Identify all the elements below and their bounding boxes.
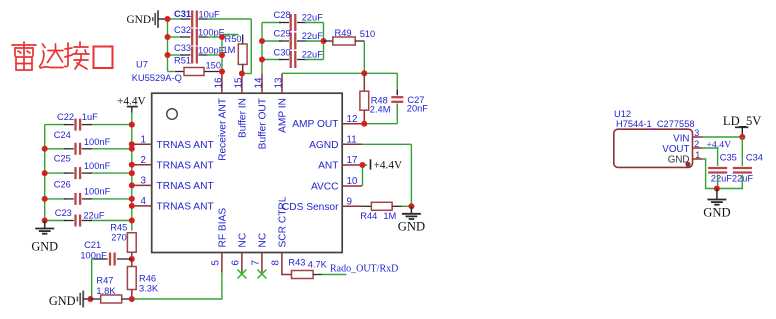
- junction ANT node: [360, 162, 366, 168]
- no-connect marker pin 7: [257, 270, 266, 279]
- junction R44 ground node: [408, 203, 414, 209]
- regulator U12 body: [614, 129, 693, 167]
- svg-text:C31: C31: [174, 9, 191, 19]
- capacitor C27: [391, 90, 428, 114]
- U7 pin 14 Buffer OUT: [254, 73, 269, 149]
- junction R45 bottom node: [129, 256, 135, 262]
- svg-text:C24: C24: [54, 130, 71, 140]
- U7 pin 17 ANT: [318, 155, 362, 171]
- svg-text:510: 510: [360, 29, 376, 39]
- svg-text:KU5529A-Q: KU5529A-Q: [132, 73, 182, 83]
- U7 pin 7 NC: [251, 233, 269, 273]
- capacitor C33: [174, 43, 225, 63]
- svg-text:C34: C34: [746, 153, 763, 163]
- svg-text:270: 270: [111, 233, 127, 243]
- wire net VOUT to C35: [703, 148, 718, 166]
- svg-text:9: 9: [347, 197, 352, 208]
- U7 pin 15 Buffer IN: [233, 73, 248, 138]
- svg-text:C28: C28: [274, 10, 291, 20]
- svg-text:Rado_OUT/RxD: Rado_OUT/RxD: [330, 263, 398, 274]
- svg-text:AVCC: AVCC: [311, 182, 339, 193]
- svg-text:VIN: VIN: [673, 133, 689, 144]
- junction U12 ground node: [714, 186, 720, 192]
- resistor R48: [360, 73, 391, 123]
- svg-text:C32: C32: [174, 25, 191, 35]
- svg-text:U7: U7: [136, 60, 148, 70]
- svg-text:4.7K: 4.7K: [308, 259, 328, 269]
- svg-text:R44: R44: [360, 211, 377, 221]
- wire net pin12 to C27 bottom: [364, 104, 397, 124]
- junction LD_5V node: [739, 134, 745, 140]
- svg-text:R50: R50: [225, 34, 242, 44]
- svg-text:C21: C21: [84, 240, 101, 250]
- wire net C24 row: [45, 148, 132, 150]
- U7 pin 5 RF BIAS: [211, 208, 229, 273]
- svg-text:CDS Sensor: CDS Sensor: [282, 202, 339, 213]
- svg-text:1uF: 1uF: [82, 112, 98, 122]
- svg-text:C35: C35: [720, 153, 737, 163]
- capacitor C32: [174, 25, 225, 45]
- power ground GND bottom-left: [49, 291, 88, 308]
- svg-text:GND: GND: [703, 206, 730, 220]
- svg-text:3: 3: [141, 176, 147, 187]
- svg-text:5: 5: [211, 260, 222, 266]
- wire net C28 right rail: [305, 23, 324, 60]
- svg-text:2.4M: 2.4M: [370, 104, 391, 114]
- svg-text:12: 12: [347, 114, 358, 125]
- svg-text:C29: C29: [274, 28, 291, 38]
- svg-text:1M: 1M: [223, 45, 236, 55]
- svg-text:8: 8: [271, 260, 282, 266]
- wire net pin14 rail: [262, 23, 281, 74]
- capacitor C35: [708, 153, 737, 184]
- junction pin14 rail: [259, 38, 265, 44]
- capacitor C25: [54, 154, 111, 180]
- title text 雷达接口 (Radar Interface): [12, 42, 113, 70]
- junction left rail: [42, 146, 48, 152]
- U12 pin 2 VOUT: [662, 139, 702, 155]
- U7 pin 13 AMP IN: [274, 73, 289, 133]
- svg-text:GND: GND: [127, 14, 151, 26]
- wire net C22 row: [45, 124, 132, 126]
- junction pin16 rail: [219, 34, 225, 40]
- U7 pin 16 Receiver ANT: [213, 73, 228, 161]
- svg-text:22uF: 22uF: [711, 174, 733, 184]
- svg-text:R43: R43: [288, 258, 305, 268]
- U7 pin 3 TRNAS ANT: [132, 176, 214, 192]
- svg-text:R46: R46: [139, 273, 156, 283]
- svg-text:R47: R47: [96, 275, 113, 285]
- svg-text:17: 17: [347, 155, 358, 166]
- svg-text:1: 1: [695, 150, 700, 160]
- svg-text:20nF: 20nF: [407, 103, 429, 113]
- junction +4.4V rail: [129, 122, 135, 128]
- resistor R46: [127, 259, 159, 299]
- svg-text:U12: U12: [614, 109, 631, 119]
- resistor R45: [110, 223, 136, 260]
- wire net left cap rail: [44, 125, 46, 221]
- wire net ANT to AVCC: [362, 165, 364, 186]
- svg-text:Buffer IN: Buffer IN: [238, 98, 249, 138]
- svg-text:10: 10: [347, 176, 358, 187]
- U7 pin 11 AGND: [309, 135, 362, 151]
- svg-text:Buffer OUT: Buffer OUT: [258, 98, 269, 149]
- svg-text:Receiver ANT: Receiver ANT: [218, 98, 229, 161]
- U7 pin 10 AVCC: [311, 176, 362, 192]
- wire net Rado_OUT/RxD: [322, 274, 347, 276]
- svg-text:H7544-1_C277558: H7544-1_C277558: [616, 119, 695, 129]
- svg-text:GND: GND: [398, 220, 425, 234]
- svg-text:2: 2: [694, 139, 699, 149]
- capacitor C31: [174, 9, 220, 28]
- resistor R44: [360, 202, 401, 221]
- wire net U12 ground: [703, 159, 743, 189]
- svg-text:22uF: 22uF: [302, 31, 324, 41]
- wire net RF BIAS: [132, 273, 222, 300]
- U12 corner marker dot: [685, 162, 690, 167]
- resistor R50: [223, 34, 248, 74]
- capacitor C29: [274, 28, 324, 49]
- svg-text:100nF: 100nF: [84, 186, 111, 196]
- svg-text:ANT: ANT: [318, 161, 338, 172]
- junction pin12 node: [361, 121, 367, 127]
- capacitor C23: [55, 208, 105, 227]
- U7 pin 9 CDS Sensor: [282, 197, 362, 213]
- svg-text:TRNAS ANT: TRNAS ANT: [157, 201, 214, 212]
- U7 pin 4 TRNAS ANT: [132, 196, 214, 212]
- svg-text:C30: C30: [274, 47, 291, 57]
- wire net C26 row: [45, 198, 132, 200]
- svg-text:22uF: 22uF: [302, 13, 324, 23]
- resistor R47: [90, 275, 131, 303]
- power +4.4V top: [117, 96, 146, 113]
- wire net C31 to pin15: [207, 19, 252, 74]
- U12 pin 1 GND: [668, 150, 703, 166]
- svg-text:3.3K: 3.3K: [139, 284, 159, 294]
- svg-text:C25: C25: [54, 154, 71, 164]
- svg-text:NC: NC: [258, 233, 269, 248]
- svg-text:1.8K: 1.8K: [96, 286, 116, 296]
- no-connect marker pin 6: [237, 270, 246, 279]
- svg-text:LD_5V: LD_5V: [723, 114, 761, 128]
- ground GND under U12 caps: [703, 189, 730, 220]
- junction top-left rail: [165, 16, 171, 22]
- wire net R49 to AMP IN node: [363, 41, 365, 73]
- capacitor C26: [54, 179, 111, 205]
- U12 pin 3 VIN: [673, 128, 702, 144]
- ground GND under C23: [31, 221, 58, 254]
- op-amp U7 KU5529A-Q IC body: [152, 93, 343, 252]
- wire net AMP IN horizontal: [282, 73, 397, 95]
- wire net VIN: [703, 136, 743, 138]
- svg-text:10uF: 10uF: [199, 9, 221, 19]
- svg-text:C33: C33: [174, 43, 191, 53]
- power +4.4V at pin ANT: [363, 159, 403, 171]
- svg-text:2: 2: [141, 155, 146, 166]
- svg-text:TRNAS ANT: TRNAS ANT: [157, 181, 214, 192]
- capacitor C28: [274, 10, 324, 31]
- resistor R49: [324, 28, 376, 45]
- power LD_5V: [723, 114, 761, 137]
- svg-text:1M: 1M: [383, 211, 396, 221]
- svg-text:GND: GND: [49, 294, 76, 308]
- svg-text:AMP OUT: AMP OUT: [292, 119, 338, 130]
- wire net R44 to ground: [402, 205, 412, 207]
- capacitor C22: [57, 112, 98, 131]
- svg-text:TRNAS ANT: TRNAS ANT: [157, 140, 214, 151]
- svg-text:100nF: 100nF: [84, 137, 111, 147]
- svg-text:AGND: AGND: [309, 140, 338, 151]
- svg-text:7: 7: [251, 260, 262, 265]
- wire net C21 left: [90, 259, 94, 299]
- svg-text:4: 4: [141, 196, 147, 207]
- junction pin15 node: [239, 71, 245, 77]
- resistor R43: [282, 258, 328, 279]
- svg-text:1: 1: [141, 135, 146, 146]
- ground GND under R44: [398, 206, 425, 233]
- svg-text:C22: C22: [57, 112, 74, 122]
- wire net +4.4V rail: [131, 113, 133, 231]
- svg-text:150: 150: [206, 61, 222, 71]
- svg-text:C26: C26: [54, 179, 71, 189]
- svg-text:NC: NC: [238, 233, 249, 248]
- junction GND bottom-left node: [87, 296, 93, 302]
- wire net AGND: [362, 144, 411, 206]
- svg-text:22uF: 22uF: [302, 50, 324, 60]
- wire net C31-top rail: [168, 19, 183, 72]
- svg-text:3: 3: [694, 128, 699, 138]
- svg-text:R51: R51: [174, 56, 191, 66]
- power ground GND top-left: [127, 10, 165, 28]
- capacitor C30: [274, 47, 324, 68]
- svg-text:TRNAS ANT: TRNAS ANT: [157, 160, 214, 171]
- junction R46 bottom node: [129, 296, 135, 302]
- svg-text:+4.4V: +4.4V: [374, 159, 403, 171]
- svg-text:6: 6: [231, 260, 242, 266]
- svg-text:SCR CTRL: SCR CTRL: [278, 196, 289, 247]
- svg-text:15: 15: [233, 77, 244, 88]
- wire net LD_5V to C34: [741, 137, 743, 166]
- svg-text:11: 11: [347, 135, 357, 146]
- capacitor C21: [80, 240, 131, 266]
- svg-text:R49: R49: [335, 28, 352, 38]
- junction AMP IN node: [361, 70, 367, 76]
- capacitor C24: [54, 130, 111, 155]
- svg-text:16: 16: [213, 77, 224, 88]
- svg-text:AMP IN: AMP IN: [278, 98, 289, 133]
- junction R49 left: [321, 38, 327, 44]
- U7 pin 8 SCR CTRL: [271, 196, 289, 272]
- svg-text:22uF: 22uF: [83, 210, 105, 220]
- capacitor C34: [732, 153, 763, 184]
- svg-text:C23: C23: [55, 208, 72, 218]
- U7 pin 6 NC: [231, 233, 249, 273]
- svg-text:14: 14: [254, 77, 265, 88]
- wire net pin16 rail: [207, 35, 239, 74]
- svg-text:GND: GND: [31, 239, 58, 253]
- U7 pin 2 TRNAS ANT: [132, 155, 214, 171]
- svg-text:RF BIAS: RF BIAS: [218, 208, 229, 248]
- svg-text:13: 13: [274, 77, 285, 88]
- svg-text:R45: R45: [110, 223, 127, 233]
- resistor R51: [174, 56, 221, 76]
- wire net C23 row: [45, 220, 132, 222]
- svg-text:100nF: 100nF: [84, 161, 111, 171]
- wire net C25 row: [45, 172, 132, 174]
- U7 pin 1 TRNAS ANT: [132, 135, 214, 151]
- U7 pin 12 AMP OUT: [292, 114, 364, 130]
